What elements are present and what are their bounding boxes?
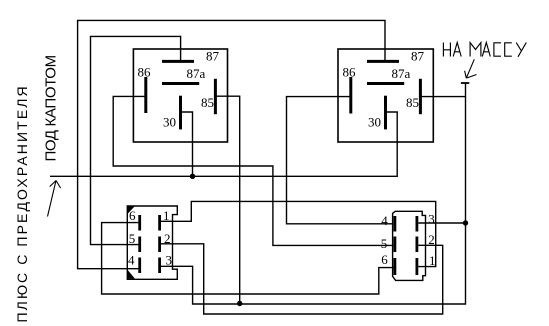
wire: connector X1 pin 1 to connector X2 pin 1	[161, 201, 436, 266]
svg-text:5: 5	[129, 231, 136, 246]
connector X1 pin 5	[129, 231, 140, 252]
relay K1 pin 85	[201, 79, 215, 114]
arrow to ground symbol	[465, 59, 477, 78]
svg-text:87: 87	[206, 49, 220, 64]
junction dot: K1 pin 85 / ground bus	[237, 301, 242, 306]
relay K1 pin 86	[138, 65, 152, 113]
connector X1 key mark bottom-left	[128, 270, 135, 279]
relay K1 pin 87	[162, 49, 220, 64]
svg-text:ПОД КАПОТОМ: ПОД КАПОТОМ	[43, 55, 60, 161]
relay K2 pin 87	[367, 49, 425, 64]
connector X2 pin 2	[417, 232, 435, 252]
svg-text:87a: 87a	[187, 66, 206, 81]
connector X1 outline	[127, 206, 177, 279]
connector X1 pin 1	[160, 208, 170, 231]
svg-text:1: 1	[163, 208, 170, 223]
relay K2 pin 30	[368, 96, 386, 130]
svg-text:86: 86	[343, 65, 357, 80]
relay K1 pin 87a	[162, 66, 206, 83]
svg-text:85: 85	[201, 95, 214, 110]
relay K1 box	[133, 49, 227, 142]
wire: connector X1 pin 4 up and over to relay K2 pin 87	[78, 20, 385, 268]
connector X2 pin 5	[381, 236, 395, 252]
junction dot: feed / K1 pin 30	[190, 174, 195, 179]
connector X2 pin 1	[417, 253, 436, 275]
connector X1 pin 2	[160, 231, 171, 252]
svg-text:5: 5	[381, 236, 388, 251]
wire: connector X1 pin 6 to connector X2 pin 6	[102, 223, 394, 294]
connector X1 pin 6	[129, 208, 140, 231]
connector X2 pin 3	[417, 211, 435, 231]
svg-text:30: 30	[368, 114, 381, 129]
svg-text:86: 86	[138, 65, 152, 80]
relay K1 pin 30	[163, 96, 181, 130]
svg-text:1: 1	[429, 253, 436, 268]
wire: connector X1 pin 2 to connector X2 pin 2	[161, 244, 443, 314]
connector X2 pin 4	[381, 213, 395, 232]
ground symbol (tick at top of ground wire)	[461, 82, 469, 84]
svg-text:4: 4	[381, 213, 388, 228]
wire: relay K1 pin 86 to connector X2 pin 5	[113, 96, 393, 245]
svg-text:2: 2	[428, 232, 435, 247]
svg-text:87a: 87a	[392, 66, 411, 81]
wire: branch from feed to relay K1 pin 30	[182, 112, 193, 176]
connector X2 pin 6	[381, 252, 395, 275]
junction dot: X2 pin 3 / ground wire	[463, 220, 468, 225]
relay K2 box	[338, 49, 433, 142]
svg-text:2: 2	[164, 231, 171, 246]
connector X1 key mark top-left	[128, 207, 135, 214]
relay K2 pin 87a	[367, 66, 411, 83]
svg-text:4: 4	[128, 252, 135, 267]
wire: relay K2 pin 86 to connector X2 pin 4	[287, 97, 394, 224]
svg-text:3: 3	[166, 252, 173, 267]
wire: relay K1 pin 85 down to ground bus	[216, 96, 240, 304]
wire: relay K2 pin 85 to ground stem	[421, 96, 466, 98]
svg-text:3: 3	[428, 211, 435, 226]
connector X1 pin 4	[128, 252, 140, 273]
relay K2 pin 86	[343, 65, 357, 114]
wire: connector X2 pin 3 to ground wire	[418, 222, 465, 224]
label НА МАССУ (hand-drawn letters)	[443, 43, 526, 57]
wire: connector X1 pin 5 up and over to relay K1 pin 87	[91, 36, 181, 244]
svg-text:30: 30	[163, 114, 176, 129]
connector X2 outline	[393, 211, 426, 280]
svg-text:6: 6	[129, 208, 136, 223]
wire: connector X1 pin 3 to ground bus and up to ground symbol	[161, 84, 466, 305]
svg-text:87: 87	[411, 49, 425, 64]
arrow to +12V feed wire	[48, 181, 61, 217]
svg-text:ПЛЮС С ПРЕДОХРАНИТЕЛЯ: ПЛЮС С ПРЕДОХРАНИТЕЛЯ	[14, 84, 30, 322]
svg-text:85: 85	[406, 95, 419, 110]
svg-text:6: 6	[381, 252, 388, 267]
wire: +12V feed from fuse to relay K2 pin 30	[50, 112, 397, 176]
connector X1 pin 3	[160, 252, 172, 273]
relay K2 pin 85	[406, 79, 420, 114]
